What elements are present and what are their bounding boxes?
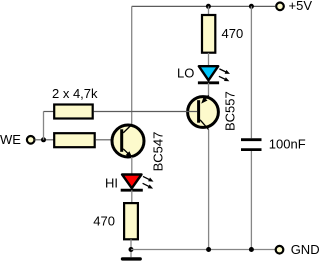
- wire: Q2 collector down to ground rail: [208, 130, 210, 250]
- node: junction ground rail / C1: [249, 247, 254, 252]
- svg-text:WE: WE: [0, 132, 21, 147]
- svg-text:BC547: BC547: [151, 132, 166, 172]
- wire: capacitor branch bottom: [250, 151, 252, 250]
- wire: R4 bottom lead: [130, 239, 132, 257]
- wire: capacitor branch top: [250, 6, 252, 138]
- wire: WE to R2: [35, 139, 54, 141]
- wire: LED HI cathode to R4: [131, 190, 133, 203]
- svg-text:2 x 4,7k: 2 x 4,7k: [52, 86, 98, 101]
- node: junction top rail / C1: [249, 4, 254, 9]
- transistor Q2 BC557 (PNP): [188, 95, 219, 129]
- wire: R2 right lead to Q1 base: [96, 139, 120, 141]
- svg-text:470: 470: [93, 214, 115, 229]
- node: WE junction: [41, 137, 46, 142]
- terminal +5V: [276, 3, 284, 11]
- wire: Q1 emitter to LED HI: [131, 157, 133, 174]
- svg-text:+5V: +5V: [289, 0, 313, 13]
- wire: left vertical from rail to Q1 collector: [131, 6, 133, 124]
- svg-text:100nF: 100nF: [269, 137, 306, 152]
- wire: R3 top lead: [208, 6, 210, 14]
- ground symbol: [123, 257, 141, 260]
- svg-text:470: 470: [222, 26, 244, 41]
- node: junction top rail / R3: [206, 4, 211, 9]
- wire: R3 bottom lead to LED LO: [208, 53, 210, 65]
- wire: R1 left lead: [44, 111, 54, 113]
- transistor Q1 BC547 (NPN): [112, 124, 144, 157]
- capacitor C1 100nF: [241, 138, 262, 141]
- wire: LED LO cathode to Q2 emitter: [208, 83, 210, 96]
- svg-text:GND: GND: [291, 242, 319, 257]
- resistor 470 (top, R3): [202, 15, 215, 53]
- resistor R4 470 (bottom): [124, 203, 138, 239]
- svg-text:BC557: BC557: [223, 91, 238, 131]
- wire: vertical link between R1 and R2 left leads: [43, 112, 45, 140]
- LED HI (red): [122, 175, 141, 189]
- wire: base wire from R1 to Q2 base: [94, 111, 197, 113]
- svg-text:LO: LO: [177, 65, 194, 80]
- LED HI emission arrows: [143, 176, 151, 180]
- resistor R2 4,7k (bottom): [54, 133, 94, 147]
- svg-text:HI: HI: [105, 176, 118, 191]
- LED LO (cyan): [199, 66, 218, 80]
- node: junction ground rail / Q2 collector: [206, 247, 211, 252]
- wire: ground rail: [131, 249, 275, 251]
- wire: +5V top rail: [132, 5, 275, 7]
- terminal GND: [276, 246, 284, 254]
- LED LO emission arrows: [219, 69, 227, 73]
- node: ground junction at R4: [129, 247, 134, 252]
- resistor R1 4,7k (top): [54, 105, 92, 119]
